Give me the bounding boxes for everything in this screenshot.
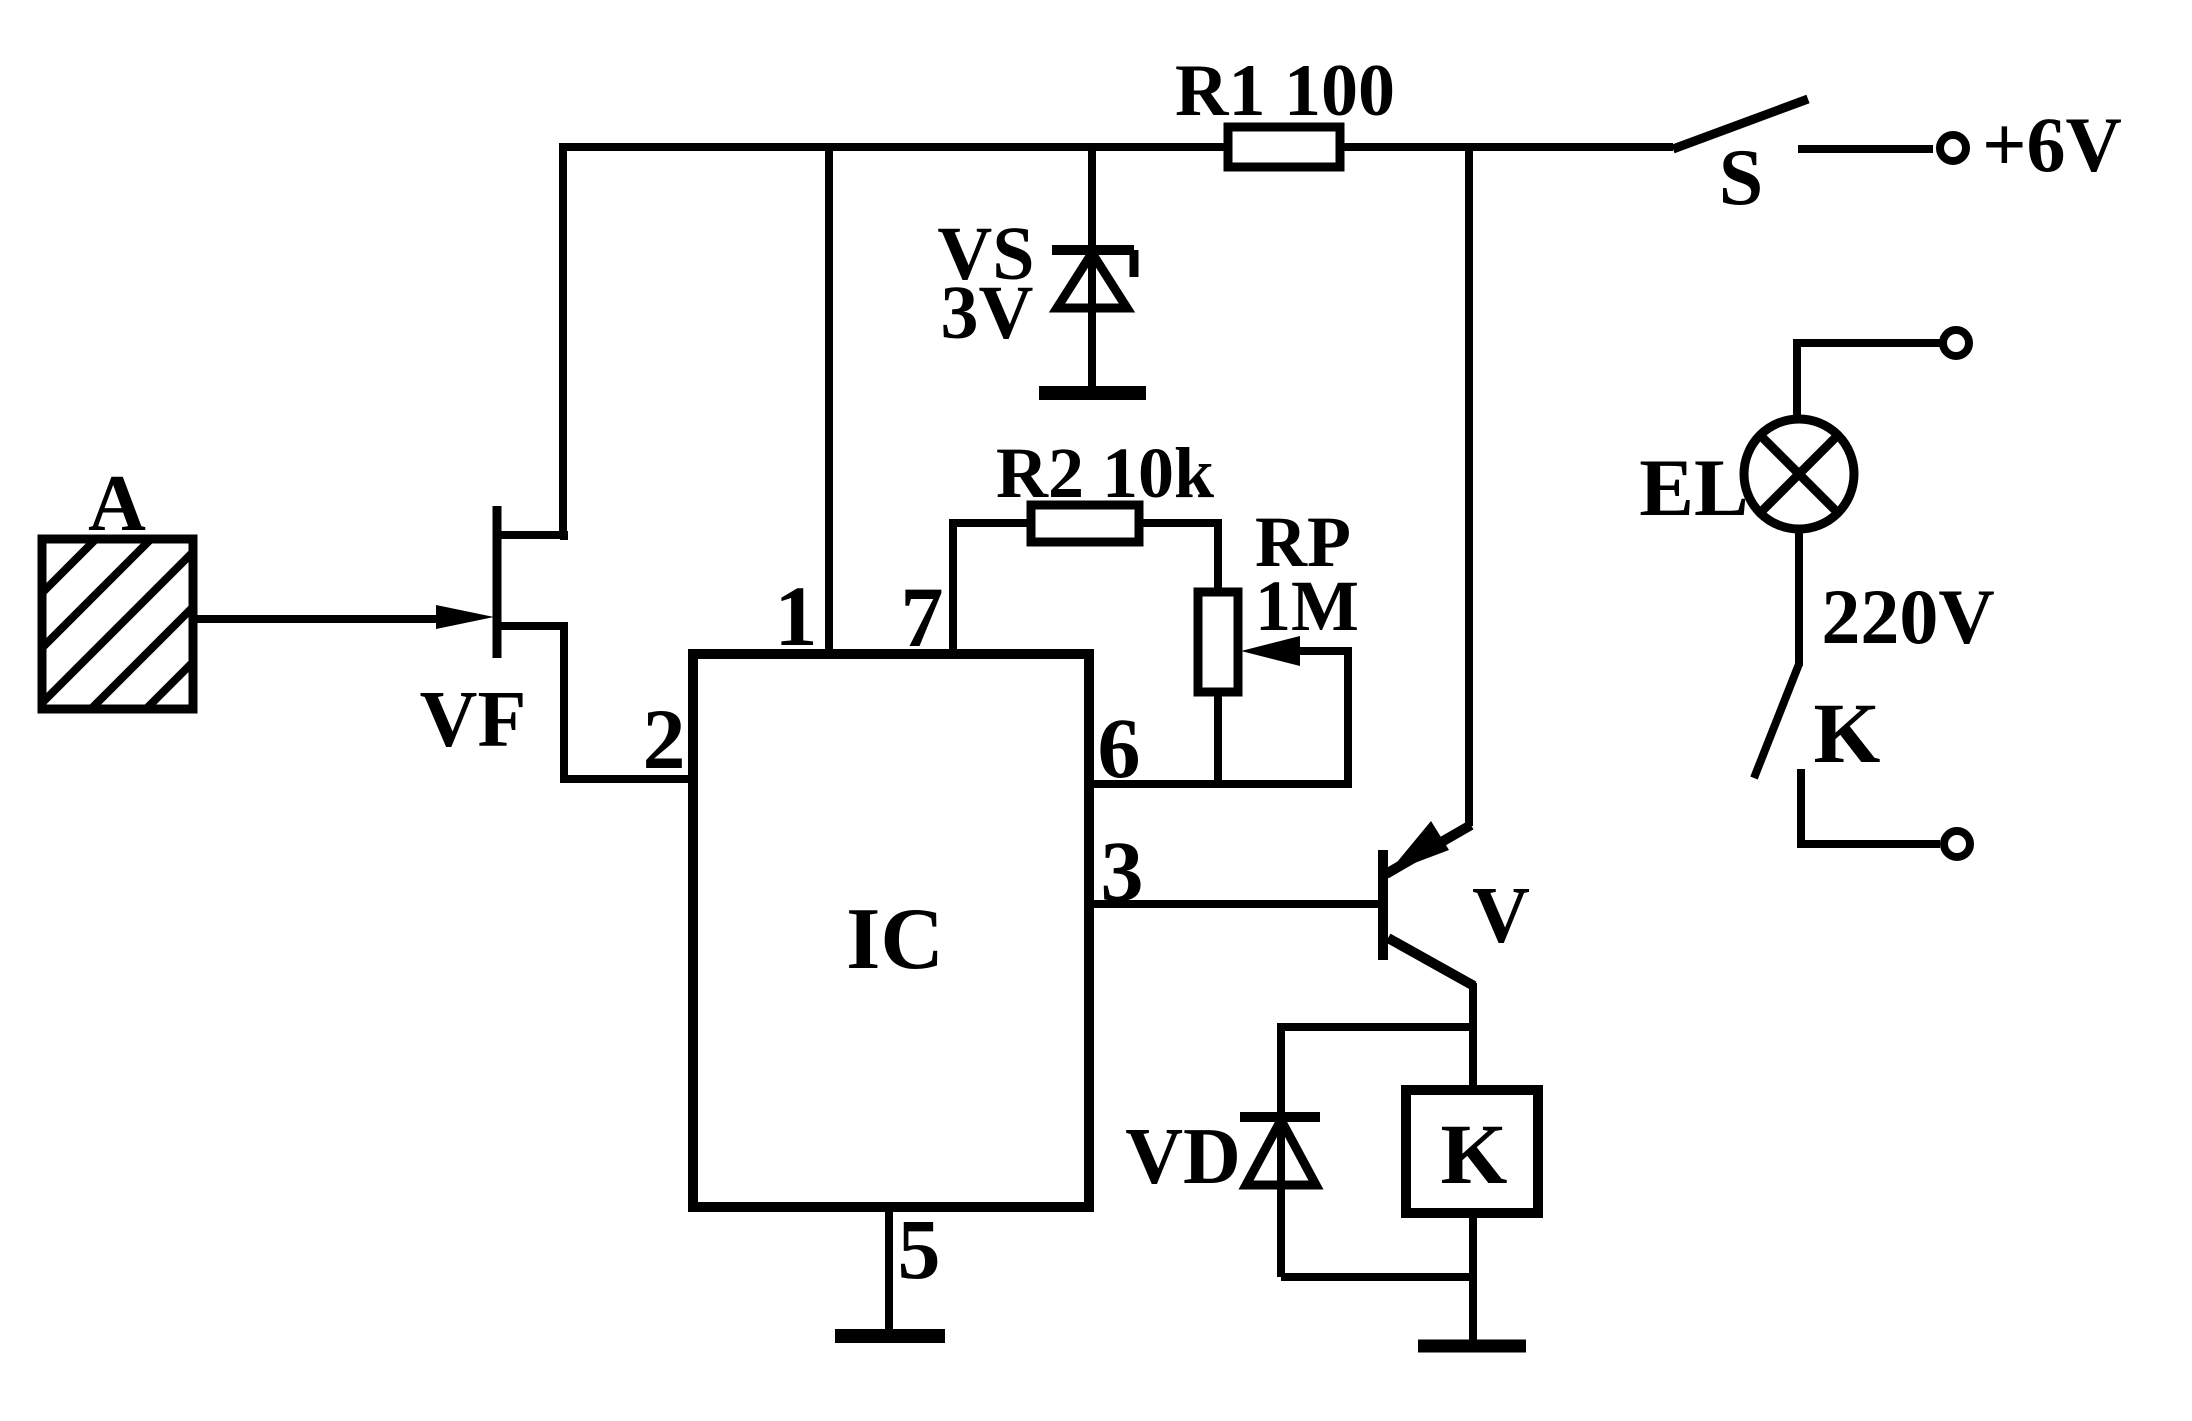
svg-text:+6V: +6V xyxy=(1982,101,2122,188)
resistor R1 xyxy=(1228,127,1340,167)
wire A to VF gate xyxy=(193,615,455,623)
svg-text:R1 100: R1 100 xyxy=(1175,50,1395,132)
wire switch S fixed lead xyxy=(1798,145,1933,153)
svg-text:1: 1 xyxy=(775,568,818,664)
svg-text:VD: VD xyxy=(1125,1113,1241,1201)
diode VD xyxy=(1240,1117,1320,1185)
terminal K bottom xyxy=(1944,831,1970,857)
wire VD bottom xyxy=(1281,1273,1473,1281)
transistor VF (field-effect) xyxy=(493,506,502,658)
svg-text:3: 3 xyxy=(1101,823,1144,919)
antenna plate A (hatched box) xyxy=(30,525,220,745)
wire K lower terminal xyxy=(1801,769,1940,844)
svg-text:2: 2 xyxy=(643,691,686,787)
wire pin 1 riser xyxy=(825,147,833,660)
RP wiper arrowhead xyxy=(1241,636,1300,666)
gate bar xyxy=(493,506,502,658)
ground (VS) xyxy=(1039,386,1146,400)
wire VD top xyxy=(1281,1027,1473,1277)
wire top rail xyxy=(563,147,1673,538)
terminal EL top xyxy=(1943,330,1969,356)
svg-text:VF: VF xyxy=(420,676,527,764)
wire pin 6 xyxy=(1089,651,1348,784)
svg-text:K: K xyxy=(1441,1106,1508,1202)
wire RP bottom lead xyxy=(1214,692,1222,784)
transistor V xyxy=(1383,825,1474,986)
wire pin 5 stub xyxy=(885,1207,893,1335)
relay coil K xyxy=(1406,1090,1538,1213)
VF gate arrowhead xyxy=(436,605,494,629)
switch K blade xyxy=(1754,664,1799,778)
svg-text:6: 6 xyxy=(1098,700,1141,796)
emitter diagonal xyxy=(1386,825,1471,874)
resistor R2 xyxy=(1031,505,1139,542)
wire VF source lead to pin 2 xyxy=(500,626,693,779)
wire VS branch xyxy=(1088,147,1096,391)
wire switch S to V emitter vertical xyxy=(1465,147,1473,826)
svg-text:EL: EL xyxy=(1639,442,1748,533)
zener diode VS xyxy=(1052,250,1134,308)
svg-text:K: K xyxy=(1814,685,1881,781)
svg-text:A: A xyxy=(88,460,146,548)
wire pin 3 to V base xyxy=(1089,900,1380,908)
wire EL top xyxy=(1797,343,1956,421)
svg-text:220V: 220V xyxy=(1821,573,1994,660)
wire R2 to RP top xyxy=(1139,523,1218,592)
svg-text:1M: 1M xyxy=(1255,566,1359,646)
potentiometer RP body xyxy=(1198,592,1238,692)
switch S blade xyxy=(1673,99,1808,149)
IC body xyxy=(693,654,1089,1207)
wire pin 7 to R2 xyxy=(953,523,1031,660)
svg-text:V: V xyxy=(1472,872,1530,960)
wire EL bottom to switch K blade xyxy=(1795,527,1803,666)
ground (relay K) xyxy=(1418,1340,1526,1353)
svg-text:IC: IC xyxy=(846,891,944,988)
svg-text:3V: 3V xyxy=(941,271,1034,355)
wire V collector to relay and ground xyxy=(1469,983,1477,1090)
terminal +6V xyxy=(1940,135,1966,161)
svg-text:5: 5 xyxy=(898,1201,941,1297)
base bar xyxy=(1378,850,1388,960)
svg-text:7: 7 xyxy=(901,569,944,665)
lamp EL xyxy=(1744,419,1854,529)
wire VF drain lead xyxy=(500,535,564,540)
collector diagonal xyxy=(1388,938,1474,986)
svg-text:S: S xyxy=(1719,134,1764,222)
svg-text:R2 10k: R2 10k xyxy=(996,433,1214,513)
emitter arrowhead (PNP) xyxy=(1388,821,1449,873)
ground (pin 5) xyxy=(835,1329,945,1343)
